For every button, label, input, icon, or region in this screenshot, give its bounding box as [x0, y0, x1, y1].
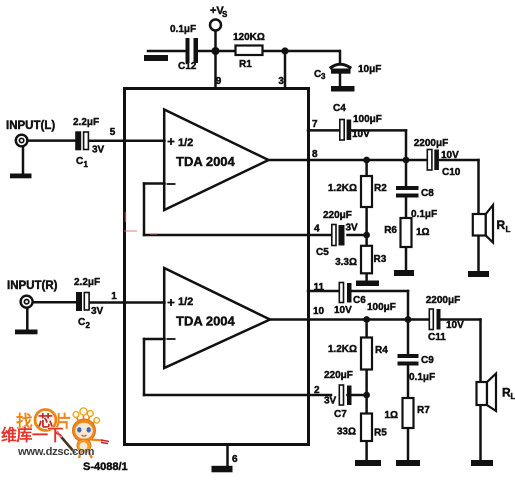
svg-text:维库一下: 维库一下 [1, 426, 64, 445]
svg-text:3V: 3V [324, 396, 337, 407]
svg-text:C12: C12 [178, 61, 197, 72]
svg-text:0.1μF: 0.1μF [411, 209, 437, 220]
svg-text:3.3Ω: 3.3Ω [335, 257, 357, 268]
svg-text:10V: 10V [441, 150, 459, 161]
svg-text:2200μF: 2200μF [414, 138, 448, 149]
svg-text:S: S [222, 10, 228, 19]
svg-text:C9: C9 [421, 355, 434, 366]
svg-text:R2: R2 [374, 183, 387, 194]
svg-text:R4: R4 [375, 345, 388, 356]
svg-text:10V: 10V [352, 129, 370, 140]
svg-text:R: R [497, 218, 506, 232]
svg-text:INPUT(L): INPUT(L) [6, 120, 55, 132]
svg-text:C8: C8 [421, 188, 434, 199]
svg-text:10V: 10V [446, 320, 464, 331]
svg-text:1Ω: 1Ω [416, 227, 430, 238]
svg-text:1: 1 [111, 291, 117, 302]
svg-text:1.2KΩ: 1.2KΩ [328, 183, 357, 194]
svg-text:100μF: 100μF [353, 114, 382, 125]
svg-text:11: 11 [314, 282, 325, 293]
svg-text:TDA 2004: TDA 2004 [176, 314, 236, 329]
svg-text:1/2: 1/2 [178, 296, 193, 308]
svg-text:6: 6 [232, 454, 238, 465]
svg-text:C5: C5 [316, 247, 329, 258]
svg-text:33Ω: 33Ω [337, 427, 356, 438]
svg-text:1: 1 [84, 160, 89, 169]
svg-text:120KΩ: 120KΩ [233, 32, 265, 43]
svg-text:C10: C10 [442, 167, 461, 178]
svg-text:C6: C6 [353, 295, 366, 306]
svg-text:3V: 3V [91, 306, 104, 317]
svg-text:L: L [506, 225, 511, 234]
svg-text:10μF: 10μF [358, 64, 381, 75]
svg-text:TDA 2004: TDA 2004 [176, 154, 236, 169]
svg-text:7: 7 [312, 119, 318, 130]
svg-text:9: 9 [216, 76, 222, 87]
svg-text:10: 10 [313, 306, 325, 317]
svg-text:L: L [511, 392, 515, 401]
svg-text:C4: C4 [333, 103, 346, 114]
svg-text:4: 4 [314, 224, 320, 235]
svg-text:2: 2 [86, 321, 91, 330]
svg-text:C: C [78, 317, 85, 328]
svg-text:3: 3 [278, 76, 284, 87]
svg-text:3V: 3V [92, 145, 105, 156]
svg-text:1Ω: 1Ω [384, 410, 398, 421]
svg-text:10V: 10V [334, 305, 352, 316]
svg-text:0.1μF: 0.1μF [170, 24, 196, 35]
svg-text:C: C [76, 156, 83, 167]
svg-text:220μF: 220μF [323, 210, 352, 221]
svg-text:100μF: 100μF [367, 302, 396, 313]
svg-text:R6: R6 [384, 225, 397, 236]
svg-text:C11: C11 [428, 332, 446, 343]
svg-text:www.dzsc.com: www.dzsc.com [17, 446, 95, 458]
svg-text:2.2μF: 2.2μF [73, 117, 99, 128]
svg-text:R3: R3 [374, 254, 387, 265]
svg-text:5: 5 [110, 127, 116, 138]
svg-text:R5: R5 [374, 428, 387, 439]
svg-text:3V: 3V [346, 223, 359, 234]
svg-text:C7: C7 [334, 409, 347, 420]
svg-text:2: 2 [314, 385, 320, 396]
svg-text:1.2KΩ: 1.2KΩ [328, 344, 357, 355]
svg-text:3: 3 [321, 72, 326, 81]
svg-text:1/2: 1/2 [178, 137, 193, 149]
svg-text:8: 8 [312, 149, 318, 160]
svg-text:2.2μF: 2.2μF [74, 277, 100, 288]
svg-text:R7: R7 [417, 405, 430, 416]
svg-text:S-4088/1: S-4088/1 [83, 461, 128, 473]
svg-text:R1: R1 [239, 59, 252, 70]
svg-text:0.1μF: 0.1μF [409, 372, 435, 383]
svg-text:INPUT(R): INPUT(R) [7, 280, 58, 292]
svg-text:220μF: 220μF [324, 370, 353, 381]
svg-text:2200μF: 2200μF [426, 295, 460, 306]
